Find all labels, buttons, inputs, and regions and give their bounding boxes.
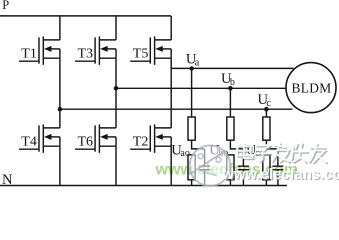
transistor T6	[75, 124, 116, 152]
svg-text:T1: T1	[21, 46, 37, 61]
svg-text:P: P	[2, 0, 9, 12]
capacitor C3	[272, 166, 283, 170]
transistor T3	[75, 36, 116, 65]
wire R1a to tap ao	[192, 140, 205, 149]
transistor T1	[19, 36, 60, 65]
node junction dot Ub tap	[228, 86, 233, 91]
wire phase b line Ub	[116, 87, 290, 89]
wire T1 drain to P rail	[59, 16, 61, 40]
wire phase c line Uc	[60, 108, 293, 110]
wire phase a line Ua	[171, 67, 293, 69]
svg-text:www.elecfans.com: www.elecfans.com	[222, 167, 339, 183]
resistor R2a	[227, 117, 234, 140]
wire R2b to N rail	[229, 180, 231, 186]
wire T5 drain to P rail	[170, 16, 172, 40]
wire T1 source to T4 drain	[59, 58, 61, 128]
wire Ub tap down	[229, 88, 231, 117]
node junction dot Uc at T1 column	[58, 107, 63, 112]
svg-text:BLDM: BLDM	[292, 80, 332, 95]
resistor R1b	[188, 155, 195, 180]
resistor R2b	[227, 155, 234, 180]
transistor T2	[130, 124, 171, 152]
wire R1b to N rail	[191, 180, 193, 186]
svg-text:T4: T4	[21, 134, 37, 149]
transistor T5	[130, 36, 171, 65]
wire T6 source to N rail	[115, 146, 117, 185]
wire cap branch b	[242, 149, 244, 166]
svg-text:a: a	[195, 57, 200, 68]
wire T5 source to T2 drain	[170, 58, 172, 128]
resistor R3b	[263, 155, 270, 180]
P rail (top bus)	[0, 15, 171, 17]
watermark chinese characters	[237, 142, 328, 164]
resistor R3a	[263, 117, 270, 140]
svg-text:T5: T5	[133, 46, 149, 61]
wire Uc tap down	[265, 109, 267, 117]
node Uao label	[171, 142, 190, 159]
N rail (bottom bus)	[0, 185, 287, 187]
node Uco label	[246, 142, 265, 159]
node Ua label	[186, 52, 200, 69]
wire Ua tap down	[191, 68, 193, 117]
wire cap branch a	[204, 149, 206, 166]
wire cap a to N rail	[204, 170, 206, 185]
wire T3 source to T6 drain	[115, 58, 117, 128]
resistor R1a	[188, 117, 195, 140]
transistor T4	[19, 124, 60, 152]
node Ubo label	[209, 142, 228, 159]
watermark logo circle	[190, 145, 231, 186]
node Ub label	[221, 71, 235, 88]
node junction dot Uc tap	[264, 107, 269, 112]
svg-text:N: N	[2, 172, 13, 188]
node junction dot Ub at T3 column	[114, 86, 119, 91]
capacitor C1	[199, 166, 210, 170]
wire cap c to N rail	[277, 170, 279, 185]
wire R3b to N rail	[265, 180, 267, 186]
motor BLDM	[286, 63, 336, 113]
svg-text:T6: T6	[78, 134, 94, 149]
svg-text:T2: T2	[133, 134, 149, 149]
svg-text:T3: T3	[78, 46, 94, 61]
wire R2a to tap bo	[230, 140, 243, 149]
capacitor C2	[238, 166, 249, 170]
wire cap b to N rail	[242, 170, 244, 185]
wire T3 drain to P rail	[115, 16, 117, 40]
wire T2 source to N rail	[170, 146, 172, 185]
wire cap branch c	[277, 149, 279, 166]
wire T4 source to N rail	[59, 146, 61, 185]
node Uc label	[258, 92, 272, 109]
node junction dot Ua tap	[190, 66, 194, 70]
wire R3a to tap co	[266, 140, 278, 149]
